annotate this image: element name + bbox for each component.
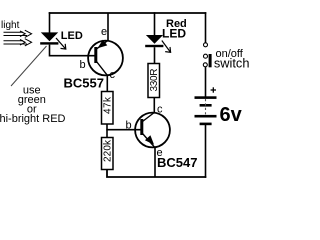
svg-text:LED: LED (61, 30, 83, 42)
svg-text:b: b (126, 120, 132, 132)
svg-text:light: light (1, 20, 20, 31)
label battery plus (211, 87, 216, 92)
svg-text:220k: 220k (103, 139, 114, 162)
callout line to LED1 (11, 46, 47, 86)
arrow Red LED emission (162, 41, 171, 53)
LED D1 sensor (40, 32, 58, 44)
wire BC557 collector to 47k (106, 75, 108, 92)
arrow light ray 2 (4, 39, 32, 46)
resistor R1 47k (102, 92, 114, 125)
wire BC557 emitter from rail (107, 13, 109, 41)
svg-text:6v: 6v (220, 104, 243, 126)
svg-text:BC547: BC547 (157, 155, 197, 170)
transistor Q2 BC547 (135, 113, 170, 148)
wire 330R to BC547 collector (153, 98, 155, 113)
wire junction to BC547 base (106, 129, 141, 131)
resistor R2 220k (102, 138, 114, 170)
transistor Q1 BC557 (88, 40, 123, 76)
arrow light ray 1 (4, 30, 32, 37)
wire LED1 cathode to BC557 base (50, 45, 97, 56)
wire rail to switch (205, 12, 207, 42)
battery B1 6v (195, 96, 217, 125)
wire Red LED cathode to 330R (154, 47, 156, 64)
svg-text:hi-bright RED: hi-bright RED (0, 113, 66, 125)
wire LED1 anode drop (49, 12, 51, 33)
svg-text:c: c (157, 104, 163, 116)
wire 47k to 220k with base junction (106, 124, 108, 138)
svg-text:c: c (110, 69, 116, 81)
svg-text:BC557: BC557 (64, 76, 104, 91)
svg-text:b: b (80, 59, 86, 71)
wire BC547 emitter to bottom rail (154, 148, 156, 178)
switch S1 on/off (203, 43, 211, 68)
LED D2 red indicator (145, 35, 163, 47)
wire Red LED anode drop (154, 12, 156, 35)
note use green or hi-bright RED (0, 84, 66, 125)
wire switch to battery (205, 67, 207, 97)
svg-text:switch: switch (214, 56, 250, 71)
svg-text:330R: 330R (149, 69, 160, 92)
svg-text:47k: 47k (103, 96, 114, 114)
wire top rail (49, 12, 207, 14)
svg-text:LED: LED (162, 27, 186, 41)
svg-text:e: e (101, 26, 107, 38)
resistor R3 330R (148, 64, 160, 98)
wire battery to bottom rail (205, 125, 207, 178)
arrow LED1 emission (56, 38, 66, 49)
wire 220k to bottom rail (107, 170, 206, 178)
